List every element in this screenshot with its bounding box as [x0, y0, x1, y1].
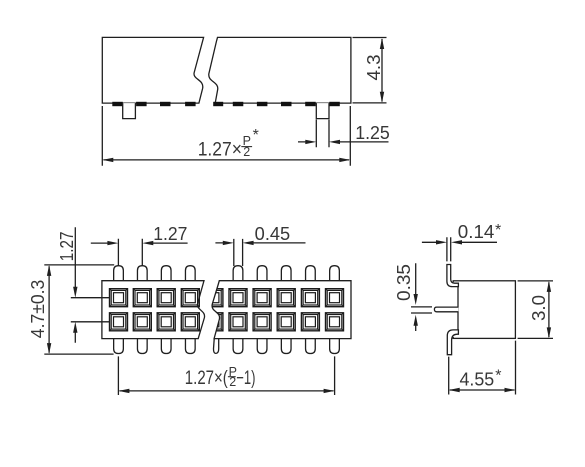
pad 10 [329, 102, 340, 106]
dimension 1.25 arrows [298, 141, 389, 143]
top pin 9 [330, 266, 340, 282]
pad 9 [305, 102, 316, 106]
top pin 8 [306, 266, 316, 282]
contact square row 1 col 8 [301, 289, 319, 307]
svg-text:2: 2 [229, 375, 236, 389]
body left edge [457, 287, 459, 330]
bottom pin 3 [161, 338, 171, 354]
dimension 4.55 text [460, 367, 502, 389]
bottom pin 6 [257, 338, 267, 354]
contact square row 2 col 3 [157, 313, 175, 331]
contact square row 2 col 1 [110, 313, 128, 331]
dimension 1.25 extension lines [316, 120, 329, 148]
right through pin (top view) [316, 103, 329, 119]
pad 5 [213, 102, 223, 106]
svg-text:4.7±0.3: 4.7±0.3 [28, 280, 48, 339]
bottom pin 1 [114, 338, 124, 354]
dimension 4.55 extension lines [449, 341, 516, 395]
pad 7 [257, 102, 268, 106]
svg-text:4.55: 4.55 [460, 370, 495, 390]
svg-text:4.3: 4.3 [364, 55, 384, 81]
partial bottom pin at break [213, 339, 218, 354]
svg-text:−1): −1) [236, 368, 255, 389]
top pin 4 [185, 266, 195, 282]
contact square row 1 col 9 [326, 289, 344, 307]
svg-text:*: * [495, 367, 501, 384]
pad 6 [233, 102, 244, 106]
dimension 1.27x(P/2-1) line [120, 390, 334, 392]
contact square row 2 col 9 [326, 313, 344, 331]
dimension 1.27xP/2 extension lines [102, 106, 350, 166]
bottom pin 4 [185, 338, 195, 354]
contact square row 2 col 6 [253, 313, 271, 331]
contact square row 1 col 5 [229, 289, 247, 307]
top pin 3 [161, 266, 171, 282]
contact square row 2 col 5 [229, 313, 247, 331]
contact square row 2 col 8 [301, 313, 319, 331]
bottom pin 8 [306, 338, 316, 354]
svg-text:3.0: 3.0 [529, 295, 549, 321]
dimension 0.45 extension lines [234, 239, 243, 266]
bottom pin 2 [137, 338, 147, 354]
svg-text:0.45: 0.45 [255, 224, 291, 244]
contact square row 1 col 3 [157, 289, 175, 307]
contact squares row 1 and row 2 [110, 289, 344, 331]
dimension 1.27x(P/2-1) extension lines [118, 356, 334, 395]
front view body left section [102, 281, 205, 339]
svg-text:*: * [495, 222, 501, 239]
top lead upper segment [447, 237, 451, 261]
dimension 1.27 row pitch line [74, 227, 76, 342]
dimension 0.14 text [458, 222, 501, 242]
top view body left section [102, 37, 203, 103]
pad 8 [281, 102, 292, 106]
bottom pin stubs [114, 338, 340, 354]
dimension 1.27x(P/2-1) text [185, 365, 256, 389]
top pin 1 [114, 266, 124, 282]
dimension 3.0 extension lines [518, 281, 553, 339]
svg-text:*: * [253, 127, 259, 144]
svg-text:0.14: 0.14 [458, 222, 495, 242]
side view body [453, 281, 515, 339]
contact square row 2 col 4 [181, 313, 199, 331]
dimension 0.35 ticks [411, 307, 432, 313]
top view body right section [209, 37, 351, 103]
svg-text:1.27: 1.27 [57, 232, 77, 262]
svg-text:1.25: 1.25 [355, 123, 390, 143]
svg-text:1.27: 1.27 [153, 224, 187, 244]
svg-text:1.27×: 1.27× [198, 139, 242, 160]
dimension 0.45 arrows [215, 242, 305, 244]
top lead J foot [447, 265, 459, 287]
bottom pin 9 [330, 338, 340, 354]
top pin 7 [281, 266, 291, 282]
dimension 0.14 arrows [422, 241, 497, 243]
bottom hook lead [447, 330, 458, 355]
front view body right section [212, 281, 351, 339]
row center extension lines [71, 298, 110, 322]
top pin 2 [137, 266, 147, 282]
svg-text:1.27×(: 1.27×( [185, 368, 229, 389]
top pin 6 [257, 266, 267, 282]
contact square row 1 col 6 [253, 289, 271, 307]
bottom pin 5 [233, 338, 243, 354]
dimension 4.7+-0.3 line [48, 266, 50, 352]
dimension 4.55 line [450, 389, 515, 391]
contact square row 2 col 2 [133, 313, 151, 331]
dimension 4.3 extension lines [353, 38, 387, 103]
pad 2 [136, 102, 147, 106]
middle pin [434, 307, 458, 312]
left through pin (top view) [123, 103, 136, 119]
contact square row 1 col 7 [277, 289, 295, 307]
pad 3 [160, 102, 171, 106]
contact square row 1 col 2 [133, 289, 151, 307]
contact square row 2 col 7 [277, 313, 295, 331]
contact square row 1 col 4 [181, 289, 199, 307]
dimension 1.27xP/2 text [198, 127, 259, 160]
body left edge eraser [452, 282, 458, 337]
dimension 1.27xP/2 line [104, 159, 350, 161]
dimension 0.35 line and arrows [415, 263, 417, 331]
dimension 4.7+-0.3 extension lines [44, 265, 114, 354]
partial squares at break (clipped) [205, 289, 223, 331]
top pin 5 [233, 266, 243, 282]
dimension 4.3 line [381, 39, 383, 102]
dimension 3.0 line [548, 282, 550, 337]
pad 1 [112, 102, 123, 106]
pad 4 [185, 102, 196, 106]
smt pads row (top view) [112, 102, 339, 106]
top pin stubs [114, 266, 340, 282]
dimension 1.27 pin pitch extension lines [118, 239, 142, 266]
dimension 1.27 pin pitch arrows [91, 242, 188, 244]
svg-text:0.35: 0.35 [394, 264, 414, 301]
contact square row 1 col 1 [110, 289, 128, 307]
bottom pin 7 [281, 338, 291, 354]
